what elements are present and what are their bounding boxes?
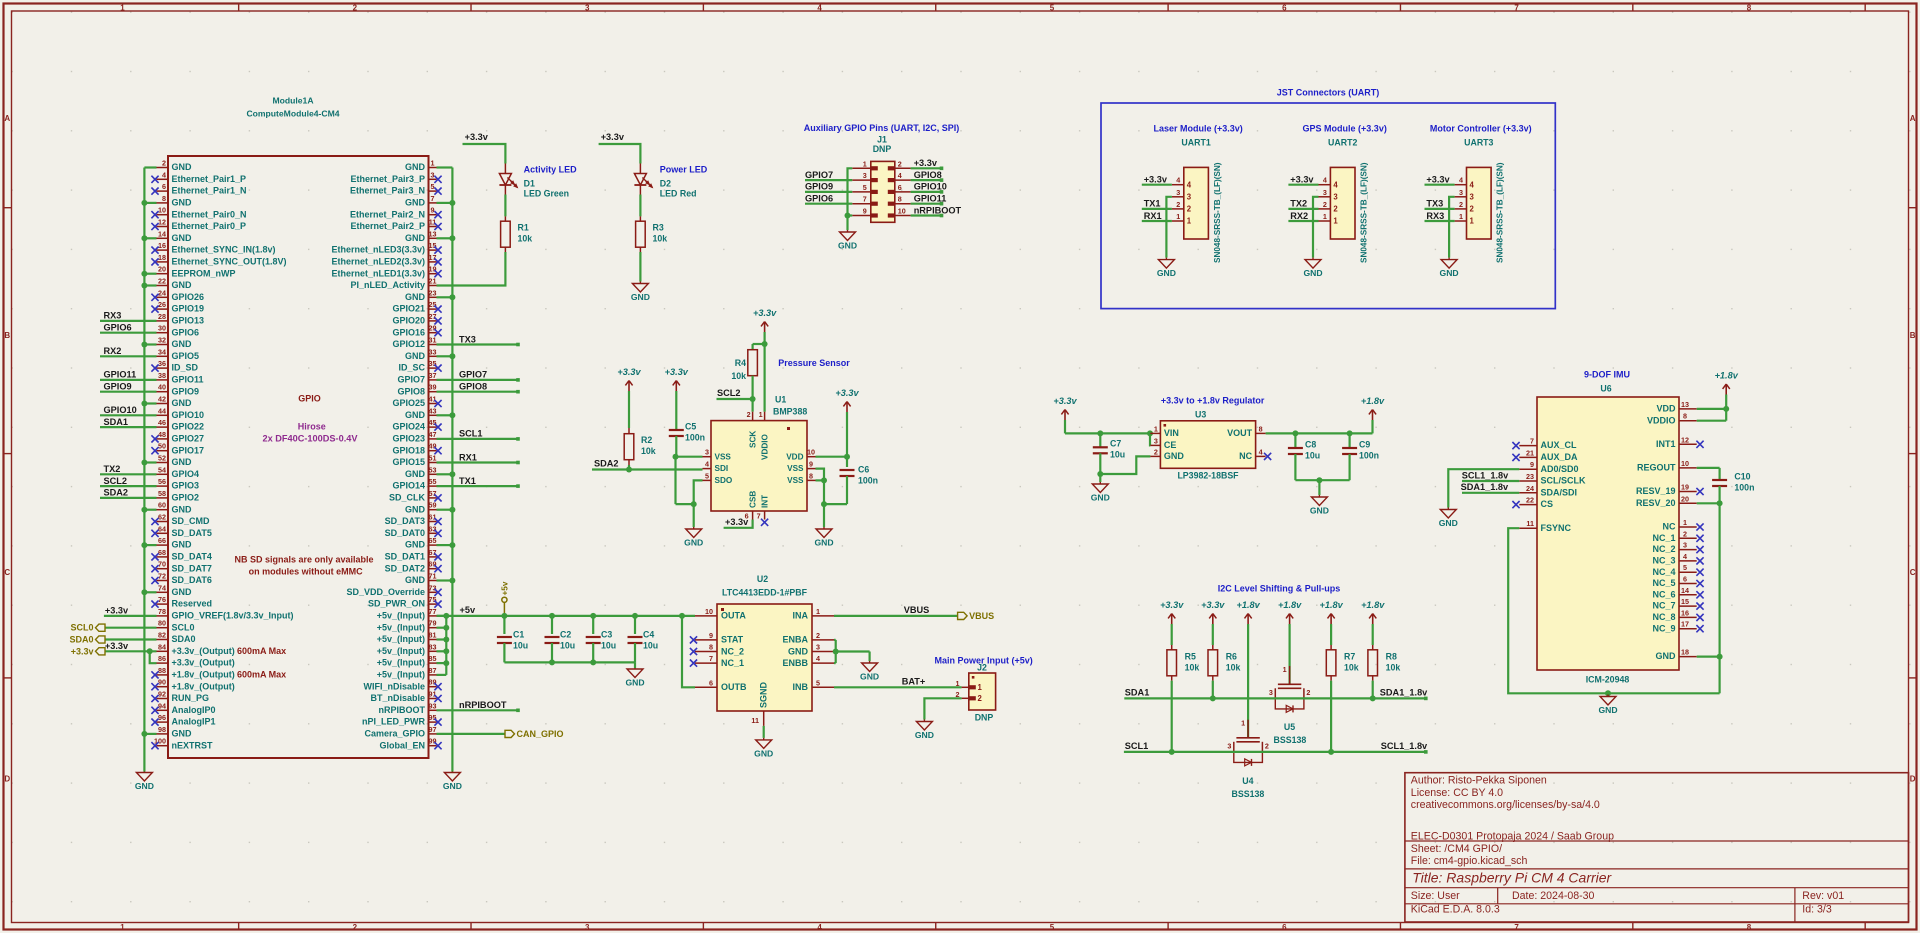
svg-text:78: 78 bbox=[158, 607, 166, 616]
svg-text:10: 10 bbox=[807, 448, 815, 457]
svg-text:GND: GND bbox=[405, 410, 426, 420]
svg-text:5: 5 bbox=[1050, 3, 1055, 12]
svg-text:6: 6 bbox=[1282, 923, 1287, 932]
svg-text:GPIO6: GPIO6 bbox=[104, 323, 132, 333]
svg-text:59: 59 bbox=[429, 501, 437, 510]
wire U1 VSS pins 9 8 to ground bbox=[816, 469, 848, 527]
svg-text:SD_PWR_ON: SD_PWR_ON bbox=[368, 599, 425, 609]
svg-text:INT: INT bbox=[760, 495, 769, 508]
svg-text:+5v_(Input): +5v_(Input) bbox=[377, 670, 425, 680]
svg-text:SD_CMD: SD_CMD bbox=[172, 516, 211, 526]
no-connect marks U6 right bbox=[1696, 441, 1703, 633]
wire U2 SGND to ground bbox=[763, 726, 765, 738]
wires TX3 RX3 to UART3 bbox=[1425, 199, 1455, 221]
svg-text:57: 57 bbox=[429, 489, 437, 498]
svg-text:RX2: RX2 bbox=[104, 346, 122, 356]
svg-text:10k: 10k bbox=[1226, 662, 1241, 672]
svg-text:37: 37 bbox=[429, 371, 437, 380]
svg-text:GND: GND bbox=[1310, 506, 1329, 516]
svg-text:GPIO: GPIO bbox=[298, 394, 321, 404]
svg-text:1: 1 bbox=[978, 683, 983, 692]
svg-text:4: 4 bbox=[817, 3, 822, 12]
svg-text:58: 58 bbox=[158, 489, 166, 498]
svg-text:GND: GND bbox=[172, 504, 193, 514]
svg-text:26: 26 bbox=[158, 300, 166, 309]
svg-text:OUTA: OUTA bbox=[721, 611, 746, 621]
wire +3.3v to UART1 pin 4 bbox=[1142, 175, 1172, 185]
svg-text:nRPIBOOT: nRPIBOOT bbox=[914, 205, 962, 215]
svg-text:Date: 2024-08-30: Date: 2024-08-30 bbox=[1512, 890, 1595, 902]
svg-text:7: 7 bbox=[1514, 923, 1519, 932]
resistor R1 10k bbox=[501, 216, 533, 252]
wire U2 INB to BAT+ and J2 bbox=[834, 677, 962, 688]
svg-text:GND: GND bbox=[915, 730, 934, 740]
svg-text:SD_DAT5: SD_DAT5 bbox=[172, 528, 212, 538]
svg-text:8: 8 bbox=[1747, 923, 1752, 932]
svg-text:10u: 10u bbox=[1110, 450, 1125, 460]
svg-text:32: 32 bbox=[158, 336, 166, 345]
capacitor C3 10u bbox=[586, 616, 616, 663]
svg-text:Ethernet_nLED2(3.3v): Ethernet_nLED2(3.3v) bbox=[331, 257, 425, 267]
svg-text:3: 3 bbox=[585, 923, 590, 932]
svg-text:1: 1 bbox=[120, 923, 125, 932]
wire U6 VDD VDDIO to +1.8v bbox=[1697, 395, 1730, 421]
svg-text:SD_DAT0: SD_DAT0 bbox=[385, 528, 425, 538]
LED D2 Power bbox=[634, 164, 707, 199]
IC Module1A ComputeModule4-CM4 body bbox=[168, 96, 429, 759]
CM4 right pin stubs and numbers bbox=[429, 159, 437, 746]
svg-text:1: 1 bbox=[1154, 424, 1158, 433]
no-connect marks U2 STAT NC_2 NC_1 bbox=[690, 636, 697, 666]
svg-text:NC_1: NC_1 bbox=[721, 658, 744, 668]
svg-text:100n: 100n bbox=[685, 433, 705, 443]
wire UART2 pin 3 to ground bbox=[1313, 197, 1319, 258]
svg-text:9: 9 bbox=[863, 207, 867, 216]
svg-text:3: 3 bbox=[705, 448, 709, 457]
net label SCL2 wire bbox=[717, 388, 753, 399]
svg-text:7: 7 bbox=[1530, 437, 1534, 446]
svg-text:62: 62 bbox=[158, 513, 166, 522]
net label +3.3v wire to U1 CSB bbox=[724, 517, 753, 528]
hierarchical label CAN_GPIO bbox=[437, 729, 564, 739]
svg-text:creativecommons.org/licenses/b: creativecommons.org/licenses/by-sa/4.0 bbox=[1411, 799, 1600, 811]
power symbol +1.8v column 5 bbox=[1319, 600, 1343, 624]
wire U1 VSS pin3 to C5 and ground bbox=[673, 454, 703, 504]
svg-text:C: C bbox=[4, 568, 10, 577]
svg-text:4: 4 bbox=[1259, 447, 1263, 456]
svg-text:5: 5 bbox=[816, 678, 820, 687]
svg-text:34: 34 bbox=[158, 347, 166, 356]
svg-text:19: 19 bbox=[1681, 483, 1689, 492]
svg-text:GPIO10: GPIO10 bbox=[172, 410, 205, 420]
svg-text:GND: GND bbox=[172, 280, 193, 290]
svg-text:GPIO8: GPIO8 bbox=[914, 170, 942, 180]
svg-text:R1: R1 bbox=[518, 223, 529, 233]
wire right GND bus bbox=[437, 168, 453, 772]
svg-text:+3.3v: +3.3v bbox=[1053, 396, 1077, 406]
wires J1 right side labels bbox=[911, 167, 944, 218]
IC U2 LTC4413EDD-1#PBF bbox=[695, 574, 834, 726]
svg-text:Auxiliary GPIO Pins (UART, I2C: Auxiliary GPIO Pins (UART, I2C, SPI) bbox=[804, 123, 960, 133]
transistor U4 BSS138 on SCL1 bbox=[1227, 624, 1269, 799]
svg-text:GPIO10: GPIO10 bbox=[914, 182, 947, 192]
resistor R8 10k bbox=[1368, 624, 1400, 681]
svg-text:28: 28 bbox=[158, 312, 166, 321]
svg-text:+1.8v: +1.8v bbox=[1361, 396, 1385, 406]
svg-text:UART1: UART1 bbox=[1181, 138, 1210, 148]
svg-text:7: 7 bbox=[757, 512, 761, 521]
svg-text:100n: 100n bbox=[1359, 451, 1379, 461]
power symbol +1.8v column 3 bbox=[1236, 600, 1260, 624]
svg-text:10k: 10k bbox=[1344, 662, 1359, 672]
svg-text:NC: NC bbox=[1663, 522, 1676, 532]
svg-text:+1.8v: +1.8v bbox=[1278, 600, 1302, 610]
svg-text:Module1A: Module1A bbox=[272, 96, 313, 106]
svg-text:SD_DAT1: SD_DAT1 bbox=[385, 552, 425, 562]
svg-text:GND: GND bbox=[405, 198, 426, 208]
svg-text:GPIO11: GPIO11 bbox=[914, 194, 947, 204]
capacitor C1 10u bbox=[497, 616, 528, 663]
svg-text:2: 2 bbox=[747, 410, 751, 419]
svg-text:GPIO13: GPIO13 bbox=[172, 316, 205, 326]
svg-text:6: 6 bbox=[1683, 575, 1687, 584]
svg-text:7: 7 bbox=[709, 654, 713, 663]
svg-text:4: 4 bbox=[1683, 552, 1687, 561]
svg-text:73: 73 bbox=[429, 583, 437, 592]
svg-text:LED Red: LED Red bbox=[660, 189, 697, 199]
svg-text:10: 10 bbox=[898, 207, 906, 216]
svg-text:2: 2 bbox=[1306, 688, 1310, 697]
svg-text:C7: C7 bbox=[1110, 439, 1121, 449]
svg-text:3: 3 bbox=[1187, 192, 1192, 201]
ground left of U1 bbox=[684, 527, 703, 548]
svg-text:Ethernet_Pair0_N: Ethernet_Pair0_N bbox=[172, 209, 247, 219]
svg-text:GPIO3: GPIO3 bbox=[172, 481, 200, 491]
wire J1 pin1 and pin9 to ground bbox=[845, 168, 853, 230]
IC U3 LP3982-18BSF bbox=[1150, 410, 1265, 481]
svg-text:GND: GND bbox=[172, 162, 193, 172]
title block bbox=[1405, 773, 1909, 922]
svg-text:RESV_20: RESV_20 bbox=[1636, 498, 1676, 508]
svg-text:UART2: UART2 bbox=[1328, 138, 1357, 148]
ground for U2 SGND bbox=[754, 738, 773, 759]
svg-text:+3.3v: +3.3v bbox=[1144, 175, 1168, 185]
svg-text:43: 43 bbox=[429, 406, 437, 415]
svg-text:NC_8: NC_8 bbox=[1652, 612, 1675, 622]
no-connect on U1 INT pin bbox=[761, 519, 768, 526]
svg-text:NC_4: NC_4 bbox=[1652, 567, 1675, 577]
svg-text:STAT: STAT bbox=[721, 635, 744, 645]
svg-text:GPIO7: GPIO7 bbox=[397, 375, 425, 385]
svg-text:10k: 10k bbox=[653, 234, 668, 244]
svg-text:A: A bbox=[4, 114, 10, 123]
svg-text:8: 8 bbox=[1683, 412, 1687, 421]
wire U2 INA to VBUS bbox=[834, 605, 958, 616]
svg-text:10: 10 bbox=[1681, 459, 1689, 468]
svg-text:Id: 3/3: Id: 3/3 bbox=[1802, 904, 1832, 916]
ground right of U1 bbox=[814, 527, 833, 548]
svg-text:+3.3v: +3.3v bbox=[601, 132, 625, 142]
svg-text:+3.3v: +3.3v bbox=[105, 606, 129, 616]
svg-text:Ethernet_Pair2_P: Ethernet_Pair2_P bbox=[350, 221, 425, 231]
svg-text:4: 4 bbox=[816, 654, 820, 663]
svg-text:SDA1: SDA1 bbox=[1125, 688, 1150, 698]
svg-text:35: 35 bbox=[429, 359, 437, 368]
wire LED D1 to resistor R1 bbox=[504, 195, 506, 217]
svg-text:+3.3v: +3.3v bbox=[71, 646, 94, 656]
svg-text:76: 76 bbox=[158, 595, 166, 604]
svg-text:48: 48 bbox=[158, 430, 166, 439]
resistor R7 10k bbox=[1326, 624, 1358, 681]
svg-text:46: 46 bbox=[158, 418, 166, 427]
svg-text:70: 70 bbox=[158, 560, 166, 569]
svg-text:45: 45 bbox=[429, 418, 437, 427]
svg-text:13: 13 bbox=[1681, 400, 1689, 409]
left net labels of CM4 bbox=[104, 311, 137, 498]
svg-text:FSYNC: FSYNC bbox=[1541, 523, 1572, 533]
svg-text:+3.3v: +3.3v bbox=[1201, 600, 1225, 610]
svg-text:8: 8 bbox=[1747, 3, 1752, 12]
LED D1 Activity bbox=[499, 164, 577, 199]
svg-text:SD_DAT4: SD_DAT4 bbox=[172, 552, 212, 562]
svg-text:77: 77 bbox=[429, 607, 437, 616]
svg-text:2: 2 bbox=[1154, 447, 1158, 456]
svg-text:NC_6: NC_6 bbox=[1652, 589, 1675, 599]
svg-text:VSS: VSS bbox=[715, 452, 732, 461]
svg-text:GND: GND bbox=[443, 781, 462, 791]
svg-text:GPIO18: GPIO18 bbox=[392, 445, 425, 455]
svg-text:65: 65 bbox=[429, 536, 437, 545]
svg-text:4: 4 bbox=[1333, 180, 1338, 189]
svg-text:Ethernet_Pair1_N: Ethernet_Pair1_N bbox=[172, 186, 247, 196]
svg-text:RX3: RX3 bbox=[104, 311, 122, 321]
net labels at J1 right: +3.3v GPIO8 GPIO10 GPIO11 nRPIBOOT bbox=[914, 158, 962, 215]
svg-text:2: 2 bbox=[816, 631, 820, 640]
svg-text:CE: CE bbox=[1164, 440, 1177, 450]
svg-text:SD_DAT2: SD_DAT2 bbox=[385, 563, 425, 573]
svg-text:1: 1 bbox=[1683, 518, 1687, 527]
svg-text:VOUT: VOUT bbox=[1227, 428, 1253, 438]
svg-text:100n: 100n bbox=[1734, 483, 1754, 493]
svg-text:Camera_GPIO: Camera_GPIO bbox=[364, 729, 425, 739]
svg-text:B: B bbox=[1910, 331, 1916, 340]
svg-text:75: 75 bbox=[429, 595, 437, 604]
left net label wires of CM4 bbox=[100, 321, 157, 498]
svg-text:U3: U3 bbox=[1195, 410, 1206, 420]
svg-text:GPIO17: GPIO17 bbox=[172, 445, 205, 455]
svg-text:GND: GND bbox=[172, 587, 193, 597]
wire +3.3v to VDDIO and R4 branch bbox=[753, 332, 768, 412]
svg-text:INA: INA bbox=[793, 611, 809, 621]
svg-text:14: 14 bbox=[158, 229, 166, 238]
svg-text:14: 14 bbox=[1681, 586, 1689, 595]
power symbol +3.3v left of R2 bbox=[617, 367, 641, 391]
wire U6 REGOUT to C10 bbox=[1697, 467, 1720, 469]
hierarchical label SCL0 bbox=[70, 623, 156, 633]
svg-text:GND: GND bbox=[788, 646, 809, 656]
svg-text:GPIO23: GPIO23 bbox=[392, 434, 425, 444]
svg-text:10u: 10u bbox=[643, 641, 658, 651]
svg-text:GND: GND bbox=[1440, 268, 1459, 278]
wire R3 to ground bbox=[639, 252, 641, 282]
svg-text:600mA Max: 600mA Max bbox=[237, 646, 286, 656]
svg-text:Rev: v01: Rev: v01 bbox=[1802, 890, 1844, 902]
svg-text:Ethernet_SYNC_IN(1.8v): Ethernet_SYNC_IN(1.8v) bbox=[172, 245, 276, 255]
ground for UART2 bbox=[1303, 258, 1322, 279]
svg-text:1: 1 bbox=[1333, 217, 1338, 226]
svg-text:CSB: CSB bbox=[748, 491, 757, 508]
svg-text:Ethernet_Pair3_N: Ethernet_Pair3_N bbox=[350, 186, 425, 196]
capacitor C10 100n bbox=[1712, 468, 1754, 503]
svg-text:+1.8v: +1.8v bbox=[1319, 600, 1343, 610]
svg-text:7: 7 bbox=[863, 195, 867, 204]
svg-text:GND: GND bbox=[625, 678, 644, 688]
svg-text:4: 4 bbox=[1176, 176, 1180, 185]
svg-text:GND: GND bbox=[405, 233, 426, 243]
svg-text:VSS: VSS bbox=[787, 476, 804, 485]
svg-text:NC_9: NC_9 bbox=[1652, 623, 1675, 633]
svg-text:4: 4 bbox=[1459, 176, 1463, 185]
svg-text:13: 13 bbox=[429, 229, 437, 238]
svg-text:4: 4 bbox=[705, 460, 709, 469]
svg-text:55: 55 bbox=[429, 477, 437, 486]
svg-text:CAN_GPIO: CAN_GPIO bbox=[517, 729, 564, 739]
svg-text:3: 3 bbox=[816, 643, 820, 652]
svg-text:NC_5: NC_5 bbox=[1652, 578, 1675, 588]
svg-text:2: 2 bbox=[353, 923, 358, 932]
svg-text:4: 4 bbox=[162, 170, 166, 179]
ground for power LED bbox=[631, 282, 650, 303]
svg-text:100n: 100n bbox=[858, 476, 878, 486]
svg-text:VSS: VSS bbox=[787, 464, 804, 473]
svg-text:2: 2 bbox=[1459, 200, 1463, 209]
ground for C8 C9 bbox=[1310, 495, 1329, 516]
svg-text:on modules without eMMC: on modules without eMMC bbox=[249, 567, 363, 577]
svg-text:25: 25 bbox=[429, 300, 437, 309]
svg-text:+5v: +5v bbox=[460, 605, 476, 615]
svg-text:SDA2: SDA2 bbox=[594, 459, 619, 469]
svg-text:RX1: RX1 bbox=[459, 452, 477, 462]
svg-text:51: 51 bbox=[429, 454, 437, 463]
svg-text:10: 10 bbox=[705, 607, 713, 616]
svg-text:SCL2: SCL2 bbox=[717, 388, 741, 398]
svg-text:10k: 10k bbox=[1185, 662, 1200, 672]
svg-text:6: 6 bbox=[898, 183, 902, 192]
IC U1 BMP388 bbox=[703, 395, 816, 521]
svg-text:5: 5 bbox=[431, 182, 435, 191]
svg-text:93: 93 bbox=[429, 701, 437, 710]
wire J2 pin2 to ground bbox=[924, 698, 961, 719]
svg-text:90: 90 bbox=[158, 678, 166, 687]
svg-text:BAT+: BAT+ bbox=[902, 677, 926, 687]
ground for U6 bbox=[1598, 695, 1617, 716]
svg-text:C8: C8 bbox=[1305, 440, 1316, 450]
svg-text:GND: GND bbox=[405, 162, 426, 172]
svg-text:Ethernet_SYNC_OUT(1.8V): Ethernet_SYNC_OUT(1.8V) bbox=[172, 257, 287, 267]
svg-text:GPIO6: GPIO6 bbox=[805, 194, 833, 204]
svg-text:ICM-20948: ICM-20948 bbox=[1586, 675, 1630, 685]
wire UART1 pin 3 to ground bbox=[1166, 197, 1172, 258]
svg-text:GPIO26: GPIO26 bbox=[172, 292, 205, 302]
svg-text:49: 49 bbox=[429, 442, 437, 451]
svg-text:2: 2 bbox=[1176, 200, 1180, 209]
svg-text:24: 24 bbox=[158, 288, 166, 297]
svg-text:GND: GND bbox=[172, 198, 193, 208]
svg-text:12: 12 bbox=[1681, 435, 1689, 444]
svg-text:nRPIBOOT: nRPIBOOT bbox=[379, 705, 426, 715]
ground for capacitor bank bbox=[625, 668, 644, 688]
svg-text:66: 66 bbox=[158, 536, 166, 545]
connector UART1 bbox=[1172, 138, 1222, 263]
svg-text:7: 7 bbox=[1514, 3, 1519, 12]
svg-text:U5: U5 bbox=[1284, 722, 1295, 732]
svg-text:DNP: DNP bbox=[873, 144, 892, 154]
wire R8 to SDA1 line bbox=[1370, 681, 1376, 702]
svg-text:39: 39 bbox=[429, 383, 437, 392]
svg-text:17: 17 bbox=[1681, 620, 1689, 629]
svg-text:+3.3v: +3.3v bbox=[753, 308, 777, 318]
svg-text:Author: Risto-Pekka Siponen: Author: Risto-Pekka Siponen bbox=[1411, 775, 1547, 787]
wires TX1 RX1 to UART1 bbox=[1142, 199, 1172, 221]
svg-text:9: 9 bbox=[809, 460, 813, 469]
svg-text:Ethernet_Pair2_N: Ethernet_Pair2_N bbox=[350, 209, 425, 219]
svg-text:+1.8v: +1.8v bbox=[1361, 600, 1385, 610]
svg-text:Pressure Sensor: Pressure Sensor bbox=[778, 358, 850, 368]
svg-text:2: 2 bbox=[898, 159, 902, 168]
svg-text:GPIO16: GPIO16 bbox=[392, 327, 425, 337]
svg-text:56: 56 bbox=[158, 477, 166, 486]
svg-text:1: 1 bbox=[1283, 665, 1287, 674]
svg-text:SD_CLK: SD_CLK bbox=[389, 493, 426, 503]
svg-text:96: 96 bbox=[158, 713, 166, 722]
svg-text:GPIO7: GPIO7 bbox=[805, 170, 833, 180]
CM4 right no-connect marks bbox=[434, 176, 441, 750]
svg-text:2x DF40C-100DS-0.4V: 2x DF40C-100DS-0.4V bbox=[263, 434, 359, 444]
svg-text:88: 88 bbox=[158, 666, 166, 675]
svg-text:23: 23 bbox=[429, 288, 437, 297]
power symbol +3.3v column 2 bbox=[1201, 600, 1225, 624]
svg-text:AnalogIP1: AnalogIP1 bbox=[172, 717, 216, 727]
svg-text:9: 9 bbox=[1530, 460, 1534, 469]
svg-text:1: 1 bbox=[1187, 217, 1192, 226]
svg-text:SDA1: SDA1 bbox=[104, 417, 129, 427]
svg-text:GND: GND bbox=[631, 292, 650, 302]
svg-text:4: 4 bbox=[817, 923, 822, 932]
svg-text:16: 16 bbox=[1681, 608, 1689, 617]
wire UART3 pin 3 to ground bbox=[1449, 197, 1455, 258]
svg-text:+5v_(Input): +5v_(Input) bbox=[377, 622, 425, 632]
svg-text:GND: GND bbox=[172, 457, 193, 467]
svg-text:2: 2 bbox=[1323, 200, 1327, 209]
svg-text:21: 21 bbox=[1526, 448, 1534, 457]
svg-text:R3: R3 bbox=[653, 223, 664, 233]
svg-text:SD_DAT3: SD_DAT3 bbox=[385, 516, 425, 526]
svg-text:NC_3: NC_3 bbox=[1652, 556, 1675, 566]
svg-text:Reserved: Reserved bbox=[172, 599, 213, 609]
connector UART3 bbox=[1455, 138, 1505, 263]
svg-text:31: 31 bbox=[429, 336, 437, 345]
svg-text:R2: R2 bbox=[641, 435, 652, 445]
svg-text:GPIO9: GPIO9 bbox=[172, 386, 200, 396]
svg-text:NC_2: NC_2 bbox=[721, 646, 744, 656]
connector J1 Auxiliary GPIO header bbox=[804, 123, 960, 222]
svg-text:97: 97 bbox=[429, 725, 437, 734]
wire C8 C9 ground bus bbox=[1295, 477, 1349, 495]
svg-text:15: 15 bbox=[429, 241, 437, 250]
svg-text:3: 3 bbox=[1176, 188, 1180, 197]
svg-text:SDA1_1.8v: SDA1_1.8v bbox=[1380, 688, 1428, 698]
svg-text:52: 52 bbox=[158, 454, 166, 463]
